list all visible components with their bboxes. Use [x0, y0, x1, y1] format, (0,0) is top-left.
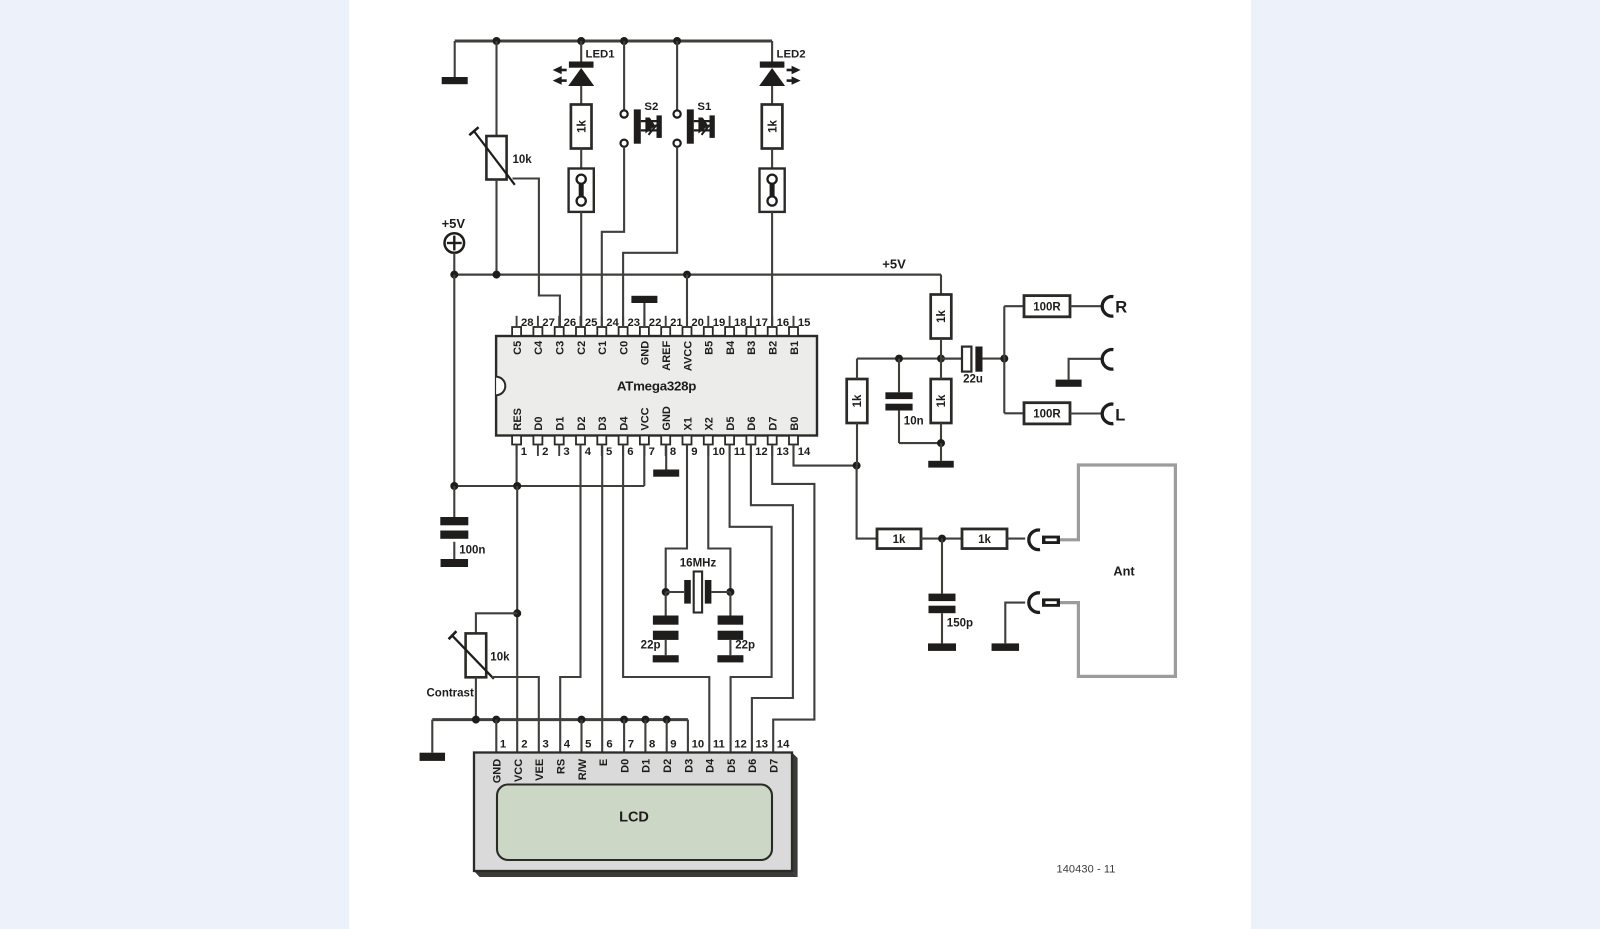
- svg-text:C1: C1: [597, 341, 609, 355]
- pushbutton S1: [674, 110, 681, 117]
- connector jack R: [1102, 297, 1113, 317]
- wire: +5V down-feed: [453, 275, 455, 486]
- wire: crystal left to 22p: [665, 592, 667, 616]
- svg-text:D4: D4: [705, 758, 717, 773]
- svg-text:150p: 150p: [947, 618, 973, 630]
- svg-text:B2: B2: [768, 341, 780, 355]
- wire: bus stub LCD pin9: [666, 720, 668, 753]
- op-amp U1 body: ATmega328p IC: [496, 336, 817, 436]
- wire: 100R to jack L: [1070, 412, 1101, 414]
- svg-text:6: 6: [606, 739, 612, 751]
- svg-text:C3: C3: [555, 341, 567, 355]
- wire: mixer row: [857, 358, 962, 360]
- svg-text:1k: 1k: [893, 534, 906, 546]
- junction (AVCC): [683, 271, 691, 279]
- svg-text:7: 7: [628, 739, 634, 751]
- IC pin numbers top (28-15): [516, 316, 518, 328]
- wire: resistor to jumper: [771, 149, 773, 169]
- wire: contrast bottom to bus: [475, 677, 477, 719]
- svg-text:RS: RS: [556, 759, 568, 774]
- junction (audio node): [1000, 355, 1008, 363]
- svg-text:D5: D5: [726, 759, 738, 773]
- svg-text:7: 7: [649, 446, 655, 458]
- wire: IC pin8 GND stub: [665, 445, 667, 470]
- IC pin numbers bottom (1-14): [516, 445, 518, 457]
- capacitor 22u (electrolytic): [941, 358, 962, 360]
- wire: bus stub LCD pin1: [495, 720, 497, 753]
- wire: D6 (pin12) to LCD pin 13: [751, 445, 793, 753]
- svg-text:10n: 10n: [904, 416, 924, 428]
- wire: junction to contrast pot: [476, 613, 517, 633]
- svg-text:6: 6: [627, 446, 633, 458]
- LED1: [569, 62, 594, 68]
- resistor 1k (to ground): [931, 379, 952, 423]
- svg-text:13: 13: [756, 739, 769, 751]
- wire: S2 to IC pin 24 (C1): [602, 147, 624, 327]
- svg-text:1k: 1k: [978, 534, 991, 546]
- junction (LCD pin8): [641, 716, 649, 724]
- LCD display window: [497, 785, 772, 861]
- wire: rail to LED1: [580, 41, 582, 62]
- ground (LCD bus): [420, 753, 446, 761]
- svg-text:GND: GND: [661, 406, 673, 431]
- wire: pot bottom to +5V rail: [495, 180, 497, 275]
- svg-text:LED1: LED1: [586, 49, 616, 61]
- svg-text:100n: 100n: [459, 544, 485, 556]
- ground (ant jack): [992, 643, 1020, 651]
- svg-text:D2: D2: [576, 417, 588, 431]
- svg-text:1: 1: [521, 446, 527, 458]
- svg-text:5: 5: [606, 446, 612, 458]
- wire: IC pin7 VCC stub: [643, 445, 645, 487]
- svg-text:1k: 1k: [936, 394, 948, 407]
- svg-text:26: 26: [564, 317, 577, 329]
- svg-text:VCC: VCC: [640, 407, 652, 430]
- wire: X1 (pin9) to crystal: [666, 445, 687, 593]
- wire: ant bottom jack to ground: [1005, 603, 1025, 644]
- IC pin squares top: [512, 327, 521, 336]
- wire: to 100n: [453, 486, 455, 517]
- resistor 1k (to +5V): [931, 295, 952, 339]
- resistor 1k (ant right): [962, 529, 1007, 549]
- wire: 100n to ground: [453, 542, 455, 559]
- wire: to 100R (L): [1004, 412, 1024, 414]
- svg-text:D3: D3: [597, 417, 609, 431]
- ground (IC pin 22 GND): [631, 296, 657, 303]
- svg-text:15: 15: [798, 317, 811, 329]
- wire: 1k lower to gnd node: [940, 423, 942, 443]
- svg-text:GND: GND: [492, 759, 504, 784]
- wire: rail to S2: [623, 41, 625, 110]
- wire: D7 (pin13) to LCD pin 14: [772, 445, 814, 753]
- wire: to 100R (R): [1004, 305, 1024, 307]
- wire: rail stub to ground: [454, 41, 456, 77]
- svg-text:AVCC: AVCC: [682, 341, 694, 371]
- svg-text:D0: D0: [533, 417, 545, 431]
- wire: +5V to rail: [453, 253, 455, 275]
- wire: IC pin1 RES stub: [516, 445, 518, 487]
- svg-text:C0: C0: [618, 341, 630, 355]
- svg-text:D1: D1: [555, 417, 567, 431]
- svg-text:D6: D6: [746, 417, 758, 431]
- wire: bus stub LCD pin8: [644, 720, 646, 753]
- svg-text:8: 8: [649, 739, 655, 751]
- junction (150p tap): [938, 535, 946, 543]
- svg-text:10: 10: [713, 446, 726, 458]
- svg-text:27: 27: [542, 317, 555, 329]
- wire: VCC column down to LCD pin 2: [516, 486, 518, 753]
- svg-text:ATmega328p: ATmega328p: [617, 378, 696, 393]
- svg-text:23: 23: [628, 317, 641, 329]
- svg-text:9: 9: [670, 739, 676, 751]
- wire: bus stub LCD pin5: [580, 720, 582, 753]
- svg-text:3: 3: [563, 446, 569, 458]
- svg-text:D0: D0: [619, 759, 631, 773]
- junction (pot top): [493, 37, 501, 45]
- LED2: [760, 62, 785, 68]
- wire: rail to pot 10k: [495, 41, 497, 136]
- potentiometer 10k (tuning): [486, 136, 506, 180]
- wire: 22p left to ground: [665, 640, 667, 655]
- svg-text:C4: C4: [533, 340, 545, 355]
- wire: pull-left bottom: [856, 423, 858, 466]
- svg-text:1k: 1k: [936, 310, 948, 323]
- wire: 1k to ant jack: [1007, 538, 1025, 540]
- junction (crystal left): [662, 588, 670, 596]
- svg-text:S2: S2: [644, 101, 658, 113]
- svg-text:22u: 22u: [963, 373, 983, 385]
- potentiometer 10k (contrast): [466, 633, 487, 677]
- wire: contrast wiper to LCD VEE: [492, 677, 539, 753]
- resistor 1k (LED1): [571, 105, 592, 149]
- svg-text:D2: D2: [662, 759, 674, 773]
- svg-text:D3: D3: [683, 759, 695, 773]
- svg-text:12: 12: [734, 739, 747, 751]
- wire: RES/VCC horizontal: [454, 485, 644, 487]
- wire: mid jack to ground: [1069, 359, 1101, 380]
- svg-text:24: 24: [606, 317, 619, 329]
- wire: stub to ground: [940, 443, 942, 461]
- svg-text:10k: 10k: [490, 651, 510, 663]
- svg-text:19: 19: [713, 317, 726, 329]
- ground (top-left): [442, 77, 468, 84]
- svg-text:16MHz: 16MHz: [680, 558, 717, 570]
- junction (contrast top): [513, 609, 521, 617]
- svg-text:17: 17: [755, 317, 768, 329]
- svg-text:RES: RES: [512, 408, 524, 431]
- antenna Ant (loop): [1060, 465, 1175, 676]
- svg-text:14: 14: [798, 446, 811, 458]
- svg-text:1k: 1k: [576, 120, 588, 133]
- svg-text:8: 8: [670, 446, 676, 458]
- wire: pull-left top: [856, 359, 858, 379]
- junction (LCD pin7): [620, 716, 628, 724]
- resistor 1k (LED2): [762, 105, 783, 149]
- wire: LCD ground bus: [432, 718, 688, 721]
- ground (150p): [928, 643, 956, 651]
- svg-text:LCD: LCD: [619, 810, 649, 826]
- junction (crystal right): [726, 588, 734, 596]
- svg-text:D4: D4: [618, 416, 630, 431]
- resistor 100R (R): [1024, 296, 1070, 317]
- wire: AVCC to +5V rail: [686, 275, 688, 327]
- svg-text:+5V: +5V: [882, 257, 906, 272]
- svg-text:14: 14: [777, 739, 790, 751]
- junction (+5V feed): [450, 271, 458, 279]
- svg-text:X2: X2: [704, 417, 716, 430]
- wire: resistor to jumper: [580, 149, 582, 169]
- svg-text:16: 16: [777, 317, 790, 329]
- jumper JP1: [569, 169, 594, 212]
- wire: rail to S1: [676, 41, 678, 110]
- svg-text:9: 9: [691, 446, 697, 458]
- connector jack L: [1102, 404, 1113, 424]
- wire: +5V rail: [454, 274, 941, 276]
- svg-text:10: 10: [692, 739, 705, 751]
- wire: gnd row: [899, 442, 941, 444]
- svg-text:GND: GND: [640, 341, 652, 366]
- resistor 100R (L): [1024, 403, 1070, 424]
- junction (S1 top): [673, 37, 681, 45]
- svg-text:25: 25: [585, 317, 598, 329]
- junction (gnd row): [937, 439, 945, 447]
- svg-text:LED2: LED2: [777, 49, 806, 61]
- svg-text:Contrast: Contrast: [427, 687, 474, 699]
- svg-text:Ant: Ant: [1113, 563, 1135, 578]
- svg-text:R/W: R/W: [577, 758, 589, 780]
- svg-text:22: 22: [649, 317, 662, 329]
- svg-text:X1: X1: [682, 417, 694, 430]
- svg-text:28: 28: [521, 317, 534, 329]
- wire: D3 (pin5) to LCD E: [601, 445, 603, 753]
- wire: D5 (pin11) to LCD pin 12: [730, 445, 772, 753]
- wire: bus end to LCD pin10: [687, 720, 689, 753]
- svg-text:4: 4: [564, 739, 571, 751]
- svg-text:D7: D7: [769, 759, 781, 773]
- connector jack (ant top): [1029, 530, 1040, 550]
- svg-text:VEE: VEE: [534, 759, 546, 781]
- svg-text:E: E: [598, 759, 610, 766]
- svg-text:5: 5: [585, 739, 591, 751]
- svg-text:AREF: AREF: [661, 341, 673, 371]
- wire: LED1 to resistor: [580, 86, 582, 105]
- svg-text:B5: B5: [704, 341, 716, 355]
- svg-text:2: 2: [542, 446, 548, 458]
- junction (LCD pin5): [578, 716, 586, 724]
- svg-text:S1: S1: [697, 101, 712, 113]
- wire: audio node vertical: [1003, 306, 1005, 413]
- wire: 100R to jack R: [1070, 305, 1101, 307]
- wire: 22p right to ground: [729, 640, 731, 655]
- svg-text:C5: C5: [512, 341, 524, 355]
- svg-text:D5: D5: [725, 417, 737, 431]
- wire: D4 (pin6) to LCD pin 11: [623, 445, 709, 753]
- svg-text:1: 1: [500, 739, 506, 751]
- svg-text:C2: C2: [576, 341, 588, 355]
- svg-text:3: 3: [543, 739, 549, 751]
- wire: X2 (pin10) to crystal: [708, 445, 730, 593]
- svg-text:11: 11: [734, 446, 746, 458]
- jumper JP2: [760, 169, 785, 212]
- capacitor 150p: [941, 539, 943, 594]
- capacitor 100n: [440, 517, 468, 525]
- capacitor 10n: [898, 359, 900, 393]
- pushbutton S2: [621, 110, 628, 117]
- wire: B0 node down to 1k row: [857, 466, 877, 539]
- wire: top ground rail: [455, 40, 772, 43]
- ground (100n): [441, 559, 469, 567]
- junction (LED1 top): [577, 37, 585, 45]
- svg-text:22p: 22p: [641, 639, 661, 651]
- svg-text:1k: 1k: [852, 394, 864, 407]
- ground (divider): [928, 461, 954, 468]
- wire: bus to ground: [431, 720, 433, 753]
- svg-text:2: 2: [521, 739, 527, 751]
- ground (common jack): [1056, 380, 1082, 387]
- svg-text:140430 - 11: 140430 - 11: [1057, 863, 1116, 875]
- wire: rail corner to LED2: [771, 41, 773, 62]
- svg-text:11: 11: [713, 739, 725, 751]
- svg-text:VCC: VCC: [513, 759, 525, 782]
- wire: node to 1k lower: [940, 359, 942, 379]
- svg-text:1k: 1k: [767, 120, 779, 133]
- wire: jumper to IC pin 16: [771, 212, 773, 327]
- connector jack (common): [1102, 350, 1113, 370]
- svg-text:B3: B3: [746, 341, 758, 355]
- junction (VCC column): [513, 482, 521, 490]
- svg-text:B4: B4: [725, 340, 737, 355]
- ground (22p right): [717, 655, 743, 662]
- junction (pot bottom on bus): [472, 716, 480, 724]
- svg-text:20: 20: [691, 317, 704, 329]
- connector jack (ant bottom): [1029, 593, 1040, 613]
- wire: S1 to IC pin 23 (C0): [623, 147, 677, 327]
- svg-text:4: 4: [585, 446, 592, 458]
- svg-text:100R: 100R: [1033, 301, 1061, 313]
- junction (B0 node): [853, 462, 861, 470]
- capacitor 22p (right): [718, 616, 744, 625]
- junction (LCD pin9): [663, 716, 671, 724]
- ground (IC pin 8): [653, 470, 679, 477]
- wire: crystal right to 22p: [729, 592, 731, 616]
- junction (pot bottom): [493, 271, 501, 279]
- svg-text:+5V: +5V: [442, 216, 466, 231]
- ground (22p left): [653, 655, 679, 662]
- svg-text:10k: 10k: [513, 154, 533, 166]
- wire: LED2 to resistor: [771, 86, 773, 105]
- svg-text:12: 12: [755, 446, 768, 458]
- svg-text:18: 18: [734, 317, 747, 329]
- junction (LCD pin1): [492, 716, 500, 724]
- svg-text:R: R: [1115, 298, 1127, 316]
- resistor 1k (pull left): [847, 379, 868, 423]
- IC pin squares bottom: [512, 436, 521, 445]
- wire: D2 (pin4) to LCD RS: [560, 445, 580, 753]
- wire: +5V rail down to 1k: [940, 275, 942, 295]
- wire: pot wiper to IC pin 26 (C3): [513, 179, 560, 328]
- wire: jumper to IC pin 25: [580, 212, 582, 327]
- svg-text:13: 13: [776, 446, 789, 458]
- wire: bus stub LCD pin7: [623, 720, 625, 753]
- wire: 1k to node: [940, 339, 942, 359]
- svg-text:21: 21: [670, 317, 683, 329]
- svg-text:D6: D6: [747, 759, 759, 773]
- svg-text:D7: D7: [768, 417, 780, 431]
- svg-text:B0: B0: [789, 417, 801, 431]
- svg-text:22p: 22p: [735, 639, 755, 651]
- junction (100n tap): [450, 482, 458, 490]
- LCD module body: [792, 753, 798, 878]
- wire: B0 (pin14) to antenna node: [794, 445, 857, 466]
- resistor 1k (ant left): [877, 529, 921, 549]
- wire: between 1k resistors: [921, 538, 962, 540]
- svg-text:D1: D1: [641, 759, 653, 773]
- svg-text:L: L: [1115, 406, 1125, 424]
- capacitor 22p (left): [653, 616, 679, 625]
- junction (10n top): [895, 355, 903, 363]
- junction (divider mid): [937, 355, 945, 363]
- svg-text:B1: B1: [789, 341, 801, 355]
- svg-text:100R: 100R: [1033, 408, 1061, 420]
- junction (S2 top): [620, 37, 628, 45]
